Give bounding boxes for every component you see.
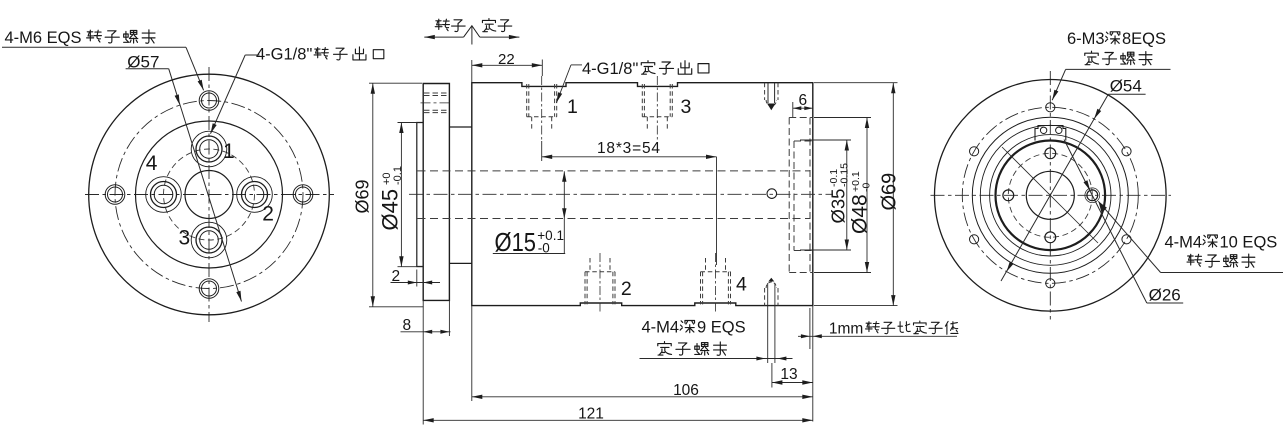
svg-text:3: 3 <box>179 227 191 250</box>
svg-text:-0: -0 <box>861 183 873 192</box>
svg-text:Ø45: Ø45 <box>378 189 403 231</box>
svg-text:1mm: 1mm <box>829 321 863 338</box>
svg-text:Ø26: Ø26 <box>1149 286 1181 305</box>
svg-text:-0.15: -0.15 <box>839 163 851 187</box>
svg-text:4-G1/8": 4-G1/8" <box>256 46 312 64</box>
svg-text:9 EQS: 9 EQS <box>697 319 746 337</box>
svg-text:6: 6 <box>798 92 807 109</box>
svg-text:106: 106 <box>673 382 699 399</box>
svg-text:4-M6 EQS: 4-M6 EQS <box>5 29 82 47</box>
svg-text:Ø69: Ø69 <box>879 173 901 211</box>
svg-text:1: 1 <box>223 140 235 163</box>
svg-text:2: 2 <box>262 203 274 226</box>
svg-text:4-G1/8": 4-G1/8" <box>582 60 638 78</box>
svg-text:1: 1 <box>567 96 578 118</box>
svg-text:22: 22 <box>498 51 515 68</box>
svg-text:6-M3: 6-M3 <box>1067 30 1105 48</box>
svg-text:121: 121 <box>578 405 604 422</box>
svg-text:Ø35: Ø35 <box>828 189 849 224</box>
svg-text:3: 3 <box>681 96 692 118</box>
svg-text:2: 2 <box>621 278 632 300</box>
svg-text:Ø54: Ø54 <box>1110 76 1142 95</box>
svg-text:8: 8 <box>403 317 412 334</box>
svg-text:4: 4 <box>736 274 747 296</box>
svg-text:-0.1: -0.1 <box>392 166 404 185</box>
svg-text:13: 13 <box>780 366 797 383</box>
svg-text:2: 2 <box>392 268 401 285</box>
svg-text:4: 4 <box>146 152 158 175</box>
svg-text:10 EQS: 10 EQS <box>1220 233 1278 251</box>
svg-text:18*3=54: 18*3=54 <box>597 140 661 157</box>
svg-text:4-M4: 4-M4 <box>642 319 680 337</box>
svg-text:Ø48: Ø48 <box>849 194 872 234</box>
svg-text:8EQS: 8EQS <box>1122 30 1166 48</box>
svg-text:4-M4: 4-M4 <box>1165 233 1203 251</box>
svg-text:Ø15: Ø15 <box>495 229 537 257</box>
svg-text:Ø69: Ø69 <box>353 179 373 213</box>
